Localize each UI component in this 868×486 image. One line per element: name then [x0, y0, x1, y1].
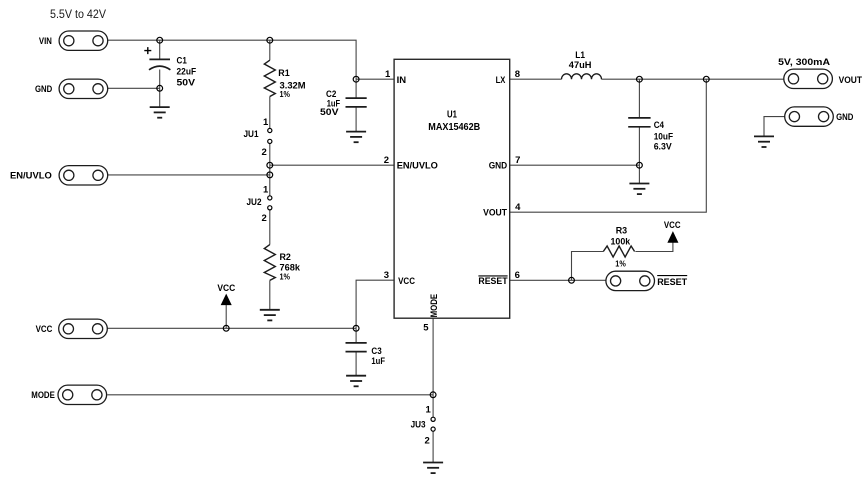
inductor L1	[562, 74, 602, 79]
node junction VCC/C3	[353, 325, 359, 331]
svg-text:5V, 300mA: 5V, 300mA	[778, 57, 830, 68]
svg-text:VCC: VCC	[664, 220, 681, 231]
svg-text:6: 6	[515, 270, 520, 281]
svg-text:MODE: MODE	[429, 294, 440, 318]
svg-text:VCC: VCC	[398, 276, 415, 287]
ground under R2	[260, 310, 280, 321]
power VCC arrow (R3)	[668, 232, 678, 242]
ground under C3	[346, 376, 366, 387]
svg-text:R3: R3	[616, 225, 627, 236]
wire JU3 leads	[432, 395, 434, 463]
svg-text:JU1: JU1	[244, 129, 260, 140]
svg-text:VOUT: VOUT	[839, 75, 863, 86]
svg-text:1%: 1%	[615, 259, 626, 269]
wire C2 leads	[355, 79, 357, 131]
connector VCC	[59, 319, 108, 338]
svg-text:1%: 1%	[280, 89, 291, 99]
svg-text:47uH: 47uH	[569, 60, 592, 71]
svg-text:1uF: 1uF	[371, 356, 385, 367]
node junction GND/C1	[157, 85, 163, 91]
connector MODE	[58, 385, 107, 404]
svg-text:RESET: RESET	[478, 276, 507, 287]
svg-text:JU3: JU3	[411, 419, 426, 430]
power VCC arrow (VCC bus)	[221, 295, 231, 305]
IC U1 MAX15462B	[394, 59, 510, 318]
wire JU2 to R2	[269, 210, 271, 310]
wire L1 to VOUT terminal	[602, 78, 784, 80]
svg-text:50V: 50V	[177, 78, 196, 89]
svg-text:R1: R1	[278, 68, 290, 79]
svg-text:JU2: JU2	[247, 197, 262, 208]
svg-text:4: 4	[515, 202, 521, 213]
resistor R2	[264, 245, 275, 281]
capacitor C2	[346, 98, 367, 107]
ground under C1	[150, 107, 170, 118]
svg-text:8: 8	[515, 69, 520, 80]
svg-text:2: 2	[425, 436, 430, 447]
svg-text:1: 1	[263, 184, 269, 195]
svg-text:VOUT: VOUT	[483, 208, 507, 219]
svg-text:R2: R2	[280, 252, 291, 263]
svg-text:EN/UVLO: EN/UVLO	[10, 171, 52, 182]
connector VIN	[59, 31, 108, 50]
wire R3 to VCC arrow	[635, 242, 673, 251]
wire VCC arrow lead	[225, 305, 227, 329]
capacitor C4	[628, 118, 650, 127]
svg-text:C4: C4	[654, 120, 665, 131]
ground under C2	[346, 132, 366, 143]
connector GND output	[785, 107, 834, 126]
svg-text:GND: GND	[35, 84, 52, 95]
svg-text:1: 1	[426, 405, 432, 416]
svg-text:1%: 1%	[280, 272, 291, 282]
node junction EN pin wire	[267, 162, 273, 168]
svg-text:GND: GND	[489, 161, 508, 172]
svg-text:C1: C1	[177, 56, 188, 67]
connector RESET	[606, 271, 655, 290]
node junction EN terminal wire	[267, 172, 273, 178]
svg-text:1: 1	[385, 69, 391, 80]
node junction IN/C2	[353, 76, 359, 82]
svg-text:LX: LX	[496, 75, 506, 86]
svg-text:22uF: 22uF	[177, 67, 197, 78]
svg-text:VIN: VIN	[39, 36, 52, 47]
wire RESET pin6	[510, 279, 606, 281]
svg-text:2: 2	[384, 155, 389, 166]
wire C4 leads	[638, 79, 640, 183]
node junction MODE/JU3	[430, 392, 436, 398]
svg-text:RESET: RESET	[657, 277, 687, 288]
wire LX to L1	[510, 78, 562, 80]
connector EN/UVLO	[59, 166, 108, 185]
resistor R1	[264, 60, 275, 96]
svg-text:5.5V to 42V: 5.5V to 42V	[50, 9, 106, 21]
svg-text:VCC: VCC	[36, 324, 53, 335]
wire MODE pin5	[432, 318, 434, 395]
wire VCC terminal bus	[108, 327, 357, 329]
wire EN/UVLO terminal	[108, 174, 270, 176]
svg-text:6.3V: 6.3V	[654, 142, 673, 153]
svg-text:U1: U1	[447, 109, 457, 120]
wire C1 leads	[159, 40, 161, 107]
svg-text:VCC: VCC	[217, 283, 235, 294]
svg-text:MAX15462B: MAX15462B	[428, 122, 480, 133]
svg-text:IN: IN	[397, 75, 407, 86]
wire R3 branch	[572, 252, 604, 281]
svg-text:7: 7	[515, 155, 520, 166]
node junction RESET/R3	[569, 277, 575, 283]
wire VIN bus	[108, 40, 357, 79]
svg-text:5: 5	[423, 322, 429, 333]
svg-text:50V: 50V	[320, 107, 339, 118]
connector VOUT	[784, 69, 833, 88]
wire JU1 to JU2	[269, 144, 271, 196]
ground under C4	[629, 184, 649, 195]
wire output GND terminal	[764, 117, 785, 137]
svg-text:3: 3	[384, 270, 389, 281]
svg-text:EN/UVLO: EN/UVLO	[397, 161, 438, 172]
node junction LX/VOUT riser	[703, 76, 709, 82]
svg-text:GND: GND	[836, 112, 853, 123]
node junction VIN/C1	[157, 37, 163, 43]
svg-text:1: 1	[263, 117, 269, 128]
wire IN pin	[356, 78, 394, 80]
wire VCC pin3	[356, 280, 394, 328]
node junction VIN/R1	[267, 37, 273, 43]
wire C3 leads	[355, 328, 357, 375]
wire MODE terminal	[107, 394, 433, 396]
ground under JU3	[423, 463, 443, 474]
connector GND input	[59, 79, 108, 98]
ground under output GND	[754, 136, 774, 147]
wire EN pin2	[270, 164, 394, 166]
node junction LX/C4	[637, 76, 643, 82]
node junction VCC arrow	[223, 325, 229, 331]
wire R1 leads	[269, 40, 271, 128]
wire VOUT pin4 riser	[510, 79, 707, 212]
wire GND pin7	[510, 164, 640, 166]
capacitor C1	[149, 59, 170, 69]
svg-text:MODE: MODE	[31, 390, 55, 401]
resistor R3	[603, 246, 634, 257]
svg-text:2: 2	[262, 213, 267, 224]
node junction GND pin/C4	[637, 162, 643, 168]
svg-text:100k: 100k	[611, 236, 631, 247]
svg-text:2: 2	[262, 147, 267, 158]
wire GND terminal to C1	[108, 87, 160, 89]
capacitor C3	[346, 343, 367, 352]
